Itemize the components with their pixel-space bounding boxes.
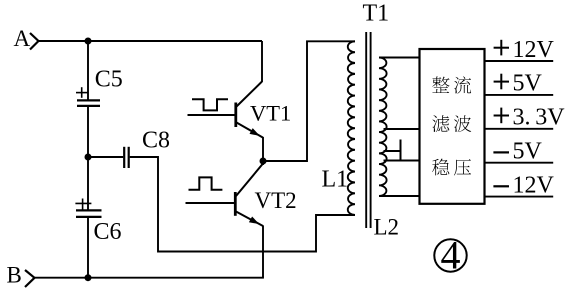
transformer core xyxy=(366,32,370,228)
wire L2 tap2 to box xyxy=(384,160,420,162)
label 滤波 xyxy=(432,115,471,132)
wire C8 left lead xyxy=(88,156,123,158)
capacitor C5 xyxy=(76,87,100,106)
svg-text:12V: 12V xyxy=(513,172,555,198)
label 稳压 xyxy=(432,159,471,176)
svg-text:5V: 5V xyxy=(513,71,543,97)
svg-text:B: B xyxy=(7,263,22,288)
transistor VT2 xyxy=(235,164,263,227)
svg-text:3. 3V: 3. 3V xyxy=(513,105,566,131)
label VT1 xyxy=(250,101,291,126)
wire A rail top xyxy=(38,40,262,42)
label -12V xyxy=(493,172,554,198)
svg-text:VT2: VT2 xyxy=(255,188,297,213)
wire output +5V xyxy=(485,94,554,96)
wire B rail xyxy=(34,277,264,279)
svg-text:A: A xyxy=(14,26,31,51)
wire midpoint to L1 top xyxy=(263,41,355,161)
wire VT1 emitter down to node xyxy=(262,137,264,161)
terminal A xyxy=(14,26,39,51)
label 整流 xyxy=(432,76,471,93)
label L2 xyxy=(374,214,400,239)
label +3.3V xyxy=(494,105,566,131)
wire L2 tap1 to box xyxy=(384,128,420,130)
wire output -5V xyxy=(485,162,554,164)
capacitor C8 xyxy=(124,147,129,168)
block rectifier/filter/regulator box xyxy=(420,49,485,204)
wire left rail middle (C5 to C6) xyxy=(87,106,89,210)
wire output +12V xyxy=(485,60,554,62)
wire L2 center tap stub xyxy=(384,140,401,161)
wire output -12V xyxy=(485,196,554,198)
svg-text:L1: L1 xyxy=(322,166,349,192)
transistor VT1 xyxy=(236,82,263,138)
node junction C8 tap xyxy=(85,154,92,161)
svg-text:C6: C6 xyxy=(94,219,122,245)
wire C8 right lead to L1 bottom xyxy=(130,157,355,252)
waveform pulse at VT1 base xyxy=(192,99,228,110)
node junction B/C6 xyxy=(85,274,92,281)
svg-text:C5: C5 xyxy=(95,66,123,92)
label +12V xyxy=(494,37,555,63)
wire VT2 emitter down to B rail xyxy=(262,226,264,278)
svg-text:C8: C8 xyxy=(142,127,170,153)
wire VT1 collector up to rail xyxy=(261,41,263,82)
figure number 4 (circled) xyxy=(434,232,466,277)
wire VT1 base lead xyxy=(188,114,236,116)
wire L2 top to box xyxy=(379,57,420,59)
svg-text:4: 4 xyxy=(441,232,461,277)
terminal B xyxy=(7,263,35,288)
capacitor C6 xyxy=(75,199,101,217)
label C5 xyxy=(95,66,123,92)
node half-bridge midpoint xyxy=(260,158,267,165)
waveform pulse at VT2 base xyxy=(189,177,223,189)
label +5V xyxy=(494,71,543,97)
label VT2 xyxy=(255,188,297,213)
label -5V xyxy=(493,139,542,165)
wire VT2 collector to node xyxy=(262,161,264,165)
svg-text:T1: T1 xyxy=(363,0,390,26)
label C6 xyxy=(94,219,122,245)
inductor L2 secondary winding xyxy=(379,58,387,197)
svg-text:5V: 5V xyxy=(513,139,543,165)
node junction A/C5 xyxy=(85,38,92,45)
label T1 xyxy=(363,0,390,26)
label L1 xyxy=(322,166,349,192)
inductor L1 primary winding xyxy=(348,41,355,215)
label C8 xyxy=(142,127,170,153)
wire VT2 base lead xyxy=(186,202,235,204)
wire left rail upper (to C5) xyxy=(87,41,89,100)
wire left rail lower (C6 to B) xyxy=(87,217,89,278)
wire output +3.3V xyxy=(485,128,554,130)
wire L2 bottom to box xyxy=(379,195,420,197)
svg-text:L2: L2 xyxy=(374,214,400,239)
svg-text:12V: 12V xyxy=(513,37,555,63)
svg-text:VT1: VT1 xyxy=(250,101,291,126)
